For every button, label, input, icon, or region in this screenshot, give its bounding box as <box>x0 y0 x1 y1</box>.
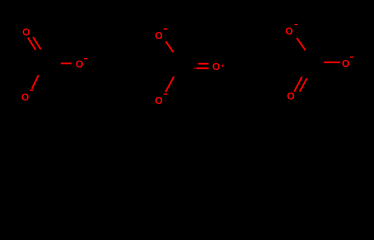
single bond C1-O2 <box>61 62 72 64</box>
charge minus on O7 <box>295 24 298 25</box>
double bond C3=O9 line b <box>300 78 307 91</box>
single bond C3-O7 <box>297 38 306 50</box>
svg-text:O: O <box>287 92 295 103</box>
charge minus on O4 <box>164 28 168 29</box>
charge minus on O3 <box>30 90 34 91</box>
double bond C1=O1 line a <box>28 38 36 50</box>
svg-text:O: O <box>155 31 163 42</box>
double bond C2=O6 line b <box>194 67 197 69</box>
double bond C2=O6 line a <box>198 63 208 65</box>
charge minus on O2 <box>84 58 88 59</box>
charge minus on O8 <box>350 56 354 57</box>
svg-text:O: O <box>212 62 220 73</box>
double bond C3=O9 line a <box>294 77 302 92</box>
single bond C2-O4 <box>166 42 174 53</box>
single bond C2-O5 <box>166 77 175 93</box>
svg-text:O: O <box>22 28 30 39</box>
single bond C3-O8 <box>324 61 340 63</box>
svg-text:O: O <box>342 59 350 70</box>
svg-text:O: O <box>155 96 163 107</box>
charge minus on O5 <box>164 93 168 94</box>
svg-text:O: O <box>285 27 293 38</box>
double bond C1=O1 line b <box>33 37 41 49</box>
artifact dot right of O6 <box>222 65 224 67</box>
svg-text:O: O <box>76 60 84 71</box>
svg-text:O: O <box>21 92 29 103</box>
single bond C1-O3 <box>32 75 39 89</box>
